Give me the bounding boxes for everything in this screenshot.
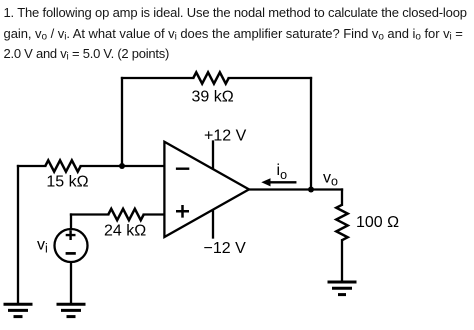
wire negative supply stub: [212, 212, 214, 238]
svg-text:100 Ω: 100 Ω: [356, 214, 399, 231]
wire feedback top horizontal right segment: [229, 77, 311, 79]
label 100 Ohm: [356, 214, 399, 231]
wire feedback top-left vertical: [121, 78, 123, 166]
wire source bottom vertical to ground: [70, 263, 72, 303]
op-amp inverting input minus symbol: [176, 167, 189, 169]
svg-text:vi: vi: [37, 236, 48, 255]
label +12 V: [204, 128, 247, 145]
label 15 kOhm: [46, 174, 88, 191]
svg-text:vo: vo: [323, 169, 338, 188]
wire noninverting-input right segment to op-amp: [144, 213, 165, 215]
wire left branch vertical down to ground: [17, 166, 19, 302]
svg-text:24 kΩ: 24 kΩ: [104, 223, 146, 240]
label -12 V: [204, 240, 247, 257]
node A junction dot (feedback / inverting input): [119, 163, 125, 169]
wire feedback right vertical drop to output node: [310, 78, 312, 190]
ground source: [57, 304, 86, 316]
current arrow io head: [261, 178, 270, 186]
op-amp noninverting input plus symbol: [176, 205, 189, 218]
svg-text:io: io: [277, 162, 288, 182]
wire feedback top horizontal left segment: [122, 77, 193, 79]
current arrow io: [269, 181, 295, 183]
resistor R3 24k zigzag: [108, 209, 143, 220]
wire load resistor bottom to ground: [341, 240, 343, 280]
voltage source Vi circle: [55, 229, 88, 262]
voltage source minus symbol: [66, 252, 76, 255]
label 24 kOhm: [104, 223, 146, 240]
svg-text:+12 V: +12 V: [204, 128, 247, 145]
wire op-amp output horizontal: [249, 188, 342, 190]
wire inverting-input left segment: [18, 165, 45, 167]
problem statement text: [4, 3, 474, 64]
ground left: [4, 304, 33, 316]
wire output drop to load resistor: [341, 190, 343, 205]
wire source top vertical: [70, 215, 72, 229]
label 39 kOhm: [192, 89, 234, 106]
voltage source plus symbol: [66, 230, 76, 240]
wire positive supply stub: [212, 142, 214, 168]
wire inverting-input right segment to op-amp: [81, 165, 165, 167]
label vi source: [37, 236, 48, 255]
resistor R2 39k zigzag: [193, 72, 228, 83]
node Vo output junction dot: [308, 187, 314, 193]
ground load: [328, 282, 357, 295]
svg-text:−12 V: −12 V: [204, 240, 247, 257]
label io current: [277, 162, 288, 182]
resistor R4 100 ohm vertical zigzag: [336, 205, 347, 240]
svg-text:39 kΩ: 39 kΩ: [192, 89, 234, 106]
op-amp U1 triangle: [164, 142, 249, 237]
resistor R1 15k zigzag: [45, 160, 80, 171]
wire noninverting-input left segment: [71, 213, 108, 215]
svg-text:15 kΩ: 15 kΩ: [46, 174, 88, 191]
label vo output node: [323, 169, 338, 188]
